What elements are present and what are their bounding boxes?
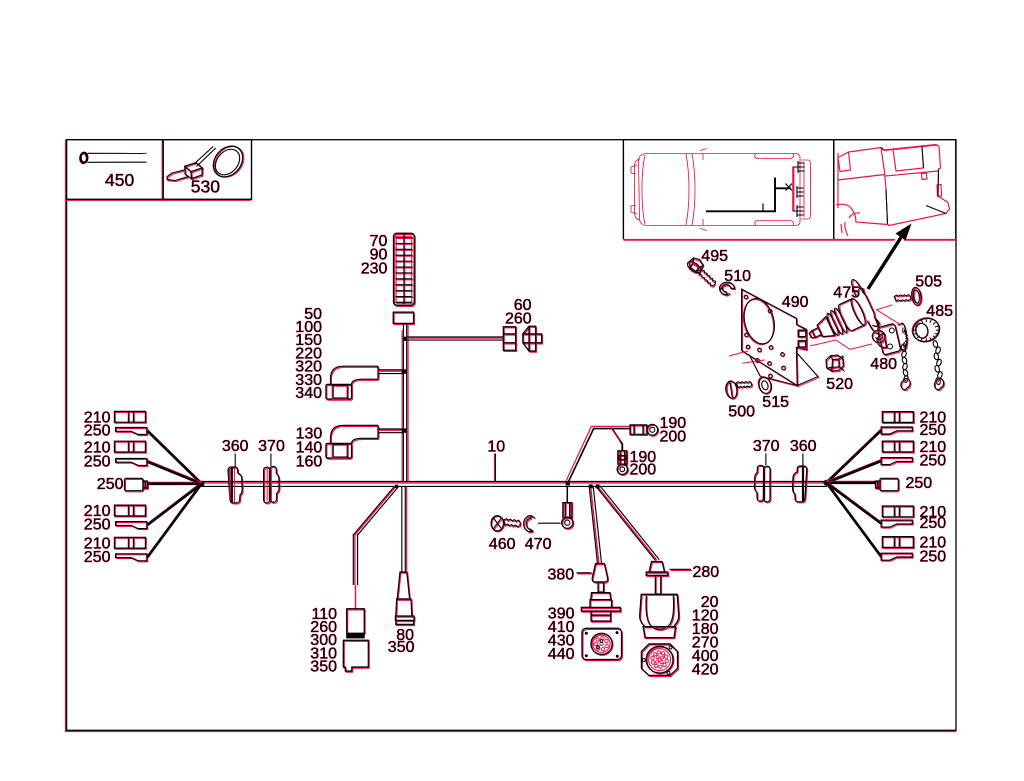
label 150 (295, 332, 322, 349)
terminal 250 left (117, 429, 148, 436)
label 320 (295, 359, 322, 376)
leader line 360 right (802, 454, 804, 468)
label 250 (84, 423, 111, 440)
label 515 (762, 394, 789, 411)
label 260 (310, 619, 337, 636)
label 530 (191, 176, 220, 196)
label 80 (396, 627, 414, 644)
wire fan right 5 (827, 481, 882, 555)
expansion rivet 450 (80, 153, 147, 164)
wire main harness 10 (201, 480, 827, 482)
connector plug 280 (650, 563, 666, 574)
svg-text:360: 360 (790, 438, 817, 455)
wire fan left 5 (148, 482, 202, 555)
label 440 (548, 646, 575, 663)
connector housing 210 right (883, 413, 914, 424)
node junction 190 wire (566, 481, 570, 485)
terminal 250 left (117, 555, 148, 562)
wire fan right 1 (827, 429, 882, 481)
label 160 (296, 454, 323, 471)
box car rear view (834, 140, 956, 240)
lock washer 510 (720, 283, 735, 296)
svg-text:520: 520 (826, 376, 853, 393)
connector housing 210 right (883, 538, 914, 549)
lamp carrier housing 20-420 (641, 595, 680, 627)
label 110 (311, 606, 337, 623)
svg-text:420: 420 (692, 661, 719, 678)
leader line 370 right (765, 454, 767, 466)
svg-text:250: 250 (84, 454, 111, 471)
label 340 (295, 385, 322, 402)
label 140 (296, 440, 323, 457)
protective cap 485 (909, 314, 943, 345)
svg-text:200: 200 (660, 429, 687, 446)
socket 480 (872, 323, 908, 355)
ring terminal 190 200 lower (619, 452, 628, 465)
label 250 (906, 475, 933, 492)
svg-text:470: 470 (525, 536, 552, 553)
label 230 (361, 261, 388, 278)
leader 280 (670, 569, 692, 571)
wire fan left 2 (148, 460, 202, 482)
svg-text:515: 515 (762, 394, 789, 411)
label 100 (295, 319, 322, 336)
node junction 380 wire (589, 484, 593, 488)
label 310 (310, 645, 337, 662)
wire fan right 4 (827, 481, 882, 522)
label 300 (310, 632, 337, 649)
screw 505 (893, 287, 923, 310)
wire to ring terminal 190 200 lower (612, 429, 622, 451)
socket housing 390 (582, 594, 621, 622)
label 485 (926, 303, 953, 320)
svg-text:250: 250 (84, 517, 111, 534)
label 70 (370, 233, 388, 250)
label 60 (514, 297, 532, 314)
svg-text:500: 500 (728, 403, 755, 420)
terminal 250 right (882, 459, 913, 466)
connector 380 (593, 565, 609, 584)
label 350 (310, 659, 337, 676)
svg-text:250: 250 (84, 423, 111, 440)
node right fan point (824, 480, 830, 486)
svg-text:280: 280 (693, 564, 720, 581)
label 490 (782, 294, 809, 311)
terminal 250 left center (125, 479, 148, 491)
leader lines cluster (729, 351, 748, 356)
label 250 (920, 453, 947, 470)
node junction wire 110 (395, 485, 398, 488)
car top view connectors (combs) (793, 161, 804, 217)
wire to ring terminal 190 200 upper (569, 429, 630, 482)
label 390 (548, 605, 575, 622)
label 410 (548, 619, 575, 636)
connector housing 210 left (115, 412, 146, 423)
svg-text:495: 495 (701, 248, 728, 265)
label 200 (660, 429, 687, 446)
wire elbow 130-160 to branch (378, 428, 403, 430)
grommet 370 left (265, 468, 271, 504)
chain of socket 480 (900, 344, 906, 352)
label 210 (84, 410, 111, 427)
grommet 360 right (793, 466, 808, 503)
box item 530 (162, 141, 250, 201)
terminal 250 right (882, 554, 913, 561)
wire to connector 280 (596, 487, 655, 561)
wire vertical branch (401, 330, 403, 481)
svg-text:250: 250 (920, 548, 947, 565)
svg-text:480: 480 (870, 356, 897, 373)
label 270 (692, 634, 719, 651)
label 480 (870, 356, 897, 373)
connector 60 260 (504, 328, 516, 352)
svg-text:450: 450 (105, 170, 134, 190)
label 250 (920, 548, 947, 565)
car top view outline (631, 149, 811, 231)
connector housing 210 right (883, 507, 914, 518)
svg-text:250: 250 (920, 515, 947, 532)
svg-text:260: 260 (505, 310, 532, 327)
label 210 (84, 535, 111, 552)
node junction elbow 2 (402, 428, 406, 432)
svg-text:160: 160 (296, 454, 323, 471)
label 250 (97, 476, 124, 493)
leader line 10 (493, 454, 495, 482)
wire fan left 3 (148, 481, 202, 483)
label 250 (84, 549, 111, 566)
round connector 400 420 (642, 645, 678, 677)
connector housing top of branch (394, 313, 414, 324)
terminal 250 right center (876, 479, 899, 491)
svg-text:475: 475 (833, 284, 860, 301)
nut 520 (827, 356, 845, 372)
label 450 (105, 170, 134, 190)
car rear view black details (881, 147, 946, 225)
label 430 (548, 632, 575, 649)
label 220 (295, 345, 322, 362)
box item 450 (66, 141, 163, 201)
label 190 (660, 415, 687, 432)
label 360 (222, 438, 249, 455)
svg-text:250: 250 (97, 476, 124, 493)
svg-text:360: 360 (222, 438, 249, 455)
connector housing 210 left (115, 538, 146, 549)
svg-text:460: 460 (489, 536, 516, 553)
svg-text:340: 340 (295, 385, 322, 402)
svg-text:250: 250 (920, 453, 947, 470)
chain of cap 485 (932, 340, 938, 348)
svg-text:350: 350 (310, 659, 337, 676)
screw 500 (724, 378, 754, 401)
label 180 (692, 621, 719, 638)
label 420 (692, 661, 719, 678)
connector housing 210 right (883, 442, 914, 453)
svg-text:250: 250 (906, 475, 933, 492)
label 460 (489, 536, 516, 553)
wire to connector 80 (401, 487, 403, 572)
wire elbow 50-340 to branch (378, 369, 403, 371)
label 495 (701, 248, 728, 265)
cable tie 530 (167, 140, 250, 184)
svg-text:200: 200 (630, 462, 657, 479)
connector 80 350 (398, 573, 410, 600)
leader screw to eyelet (538, 522, 561, 524)
label 470 (525, 536, 552, 553)
washer 515 (756, 375, 773, 395)
label 370 (258, 438, 285, 455)
label 350 (388, 639, 415, 656)
label 260 (505, 310, 532, 327)
bulb socket 475 (796, 277, 884, 361)
grommet 360 left (229, 468, 243, 504)
svg-text:510: 510 (724, 268, 751, 285)
svg-text:490: 490 (782, 294, 809, 311)
svg-text:380: 380 (547, 567, 574, 584)
label 380 (547, 567, 574, 584)
label 250 (920, 515, 947, 532)
leader line 370 left (270, 454, 272, 467)
car rear view outline (836, 145, 950, 237)
terminal 250 left (117, 523, 148, 530)
label 50 (304, 306, 322, 323)
label 10 (487, 439, 505, 456)
node junction 280 wire (596, 484, 600, 488)
connector 110 260 300 310 350 (348, 610, 366, 634)
wire fan left 4 (148, 482, 202, 523)
node branch bend (403, 337, 407, 341)
car top view harness (black) (706, 178, 791, 212)
wire to connector 110 (353, 487, 394, 535)
bracket plate 490 (739, 289, 819, 387)
node left fan point (199, 481, 205, 487)
label 520 (826, 376, 853, 393)
leader line 360 left (234, 454, 236, 468)
svg-text:505: 505 (915, 273, 942, 290)
connector housing 210 left (115, 506, 146, 517)
terminal 250 left (117, 459, 148, 466)
svg-text:250: 250 (84, 549, 111, 566)
label 210 (920, 535, 947, 552)
svg-text:370: 370 (258, 438, 285, 455)
label 210 (84, 503, 111, 520)
grommet 370 right (754, 465, 770, 502)
svg-text:250: 250 (920, 422, 947, 439)
label 370 (753, 438, 780, 455)
elbow connector 50-340 (331, 367, 379, 385)
label 190 (630, 449, 657, 466)
terminal 250 right (882, 428, 913, 435)
ring terminal 190 200 upper (631, 426, 648, 435)
leader 380 (577, 573, 592, 575)
washer 470 (525, 517, 536, 533)
label 280 (693, 564, 720, 581)
wire eyelet 460 (566, 487, 568, 503)
wire branch to 60 260 (407, 336, 504, 338)
bolt 495 (684, 255, 722, 288)
node junction elbow 1 (402, 369, 406, 373)
wire fan right 3 (827, 480, 876, 482)
label 210 (84, 439, 111, 456)
svg-text:230: 230 (361, 261, 388, 278)
label 250 (84, 517, 111, 534)
label 90 (370, 247, 388, 264)
arrow to car rear (890, 233, 904, 255)
label 475 (833, 284, 860, 301)
label 250 (84, 454, 111, 471)
label 330 (295, 372, 322, 389)
svg-text:10: 10 (487, 439, 505, 456)
label 505 (915, 273, 942, 290)
svg-text:370: 370 (753, 438, 780, 455)
label 510 (724, 268, 751, 285)
label 210 (920, 439, 947, 456)
label 500 (728, 403, 755, 420)
box car top view (623, 140, 833, 240)
label 250 (920, 422, 947, 439)
label 20 (701, 594, 719, 611)
label 210 (920, 410, 947, 427)
terminal 250 right (882, 521, 913, 528)
svg-text:350: 350 (388, 639, 415, 656)
elbow connector 130-160 (331, 426, 379, 444)
label 210 (920, 504, 947, 521)
outer border frame (65, 140, 67, 732)
ring terminal at 460 (564, 504, 573, 519)
label 130 (296, 426, 323, 443)
socket plate 430 440 (583, 629, 623, 660)
svg-text:440: 440 (548, 646, 575, 663)
connector strip 70 90 230 (394, 233, 416, 306)
screw 460 (491, 516, 521, 532)
clip 60 260 (524, 327, 543, 352)
wire fan left 1 (148, 430, 202, 483)
wire fan right 2 (827, 460, 882, 482)
svg-text:530: 530 (191, 176, 220, 196)
label 360 (790, 438, 817, 455)
label 200 (630, 462, 657, 479)
label 120 (692, 607, 719, 624)
wire to connector 380 (589, 487, 597, 564)
connector housing 210 left (115, 442, 146, 453)
svg-text:485: 485 (926, 303, 953, 320)
label 400 (692, 648, 719, 665)
